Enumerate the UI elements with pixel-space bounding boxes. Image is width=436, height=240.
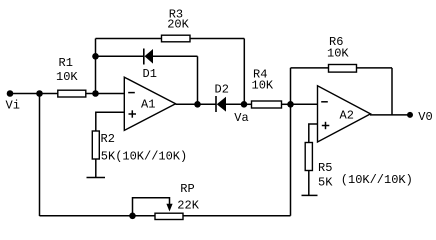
- svg-text:10K: 10K: [56, 70, 78, 84]
- wire RP wiper tap: [133, 198, 170, 216]
- wire R4 right to summing node: [282, 103, 291, 105]
- svg-text:10K: 10K: [327, 46, 349, 60]
- svg-text:(10K//10K): (10K//10K): [341, 173, 413, 187]
- ground (A2 side): [302, 194, 318, 196]
- resistor R6: [329, 65, 357, 73]
- wire R5 to ground: [308, 171, 310, 196]
- wire R6 feedback right segment: [357, 67, 393, 69]
- svg-text:D1: D1: [143, 67, 157, 81]
- wire D2 to Va: [226, 103, 244, 105]
- node junction Vi to bottom rail: [36, 90, 43, 97]
- wire top rail to R3: [96, 38, 162, 40]
- wire summing node to A2 inverting input: [291, 103, 318, 105]
- svg-text:RP: RP: [180, 182, 194, 196]
- wire R1 to A1 inverting input: [86, 93, 125, 95]
- wire R3 to right vertical: [190, 38, 244, 40]
- resistor R2: [92, 131, 99, 159]
- resistor R5: [305, 143, 312, 171]
- resistor R4: [252, 101, 282, 108]
- diode D2: [216, 96, 226, 112]
- op-amp A1: [124, 77, 175, 130]
- wire A2 output to V0: [370, 114, 410, 116]
- wire R2 to ground: [95, 159, 97, 178]
- node Va junction: [241, 101, 248, 108]
- wire vertical R6 down to A2 output: [391, 68, 393, 115]
- wire A1 noninverting input: [96, 112, 125, 131]
- diode D1: [144, 49, 153, 65]
- node Vi terminal: [7, 90, 14, 97]
- wire D1 cathode line to left node: [96, 55, 144, 57]
- node junction D1 line: [92, 53, 99, 60]
- wire vertical from Vi node down to bottom rail: [39, 94, 41, 217]
- potentiometer RP body: [155, 213, 183, 219]
- wire vertical R3 down to Va: [243, 39, 245, 105]
- svg-text:A2: A2: [340, 109, 354, 123]
- resistor R3: [162, 35, 191, 42]
- wire bottom rail right of RP: [183, 215, 291, 217]
- node junction A1 inverting: [92, 90, 99, 97]
- wire A2 noninverting input: [309, 124, 318, 143]
- wire vertical A1 output node up to D1 line: [197, 56, 199, 104]
- op-amp A2: [318, 86, 371, 142]
- svg-text:5K(10K//10K): 5K(10K//10K): [101, 149, 187, 163]
- svg-text:Vi: Vi: [6, 98, 20, 112]
- potentiometer RP wiper arrow: [166, 204, 172, 212]
- svg-text:R2: R2: [101, 132, 115, 146]
- svg-text:Va: Va: [234, 111, 248, 125]
- node junction RP tap: [129, 213, 136, 220]
- svg-text:D2: D2: [215, 83, 229, 97]
- wire A1 output to D2: [176, 103, 217, 105]
- wire D1 anode to right vertical: [153, 55, 198, 57]
- node junction A2 summing: [287, 101, 294, 108]
- wire R6 feedback left segment: [291, 67, 329, 69]
- svg-text:20K: 20K: [167, 18, 189, 32]
- svg-text:A1: A1: [141, 98, 155, 112]
- svg-text:10K: 10K: [252, 79, 274, 93]
- svg-text:22K: 22K: [177, 199, 199, 213]
- resistor R1: [58, 90, 86, 97]
- svg-text:R5: R5: [318, 161, 332, 175]
- wire Vi input to R1: [10, 93, 58, 95]
- svg-text:R1: R1: [59, 56, 73, 70]
- ground (A1 side): [87, 177, 106, 179]
- wire Va to R4: [244, 103, 252, 105]
- wire vertical left node stack: [95, 39, 97, 94]
- wire bottom rail left of RP: [40, 215, 156, 217]
- node V0 terminal: [407, 112, 413, 118]
- svg-text:V0: V0: [418, 110, 432, 124]
- wire vertical RP to A2 summing node and R6: [290, 68, 292, 216]
- node junction A1 output: [194, 101, 201, 108]
- svg-text:5K: 5K: [318, 175, 333, 189]
